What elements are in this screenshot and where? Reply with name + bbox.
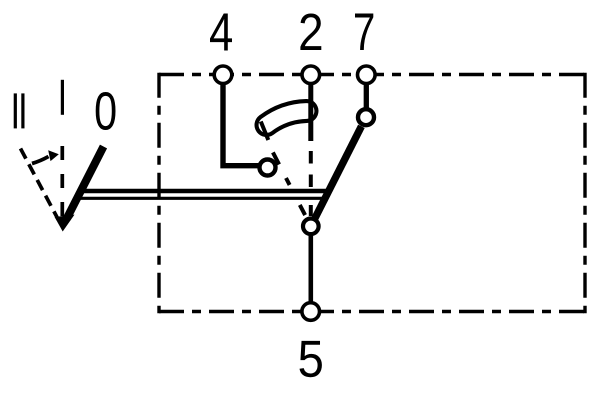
- pivot circle node: [303, 219, 319, 235]
- terminal 5 circle: [302, 303, 320, 321]
- terminal 2 line over capsule: [308, 84, 313, 141]
- label 7: [355, 14, 373, 51]
- switch enclosure dash-dot border bottom: [159, 310, 585, 313]
- label 4: [210, 14, 232, 51]
- label II: [14, 93, 17, 128]
- terminal 2 dashed line to pivot: [309, 151, 313, 164]
- contact circle at terminal 4: [260, 160, 276, 176]
- label I: [61, 80, 64, 115]
- label 0: [96, 92, 116, 130]
- actuation direction arrowhead: [48, 150, 59, 161]
- contact bridge capsule: [267, 111, 307, 125]
- dashed diagonal contact travel line: [273, 152, 279, 164]
- label 5: [300, 341, 322, 377]
- moving contact lever 7-5: [315, 126, 362, 218]
- position I dashed travel line: [60, 146, 64, 217]
- switch enclosure dash-dot border right: [583, 73, 586, 313]
- mechanical link double line bottom: [76, 197, 327, 200]
- switch enclosure dash-dot border left: [157, 73, 160, 313]
- label 2: [300, 14, 321, 51]
- mechanical link double line top: [78, 189, 330, 193]
- actuator lever position 0: [67, 147, 104, 220]
- terminal 5 connection line: [308, 234, 313, 302]
- switch enclosure dash-dot border top: [159, 73, 585, 76]
- terminal 2 circle: [302, 66, 320, 84]
- position II dashed travel line: [21, 149, 59, 221]
- terminal 7 connection line: [364, 84, 369, 108]
- actuator lever arrowhead: [55, 215, 75, 232]
- terminal 7 circle: [358, 66, 376, 84]
- terminal 4 circle: [214, 66, 232, 84]
- terminal 4 connection line: [223, 83, 259, 166]
- contact bridge end stop tick: [261, 122, 269, 141]
- actuation direction arrow arc: [32, 157, 49, 164]
- contact circle at terminal 7: [358, 109, 374, 125]
